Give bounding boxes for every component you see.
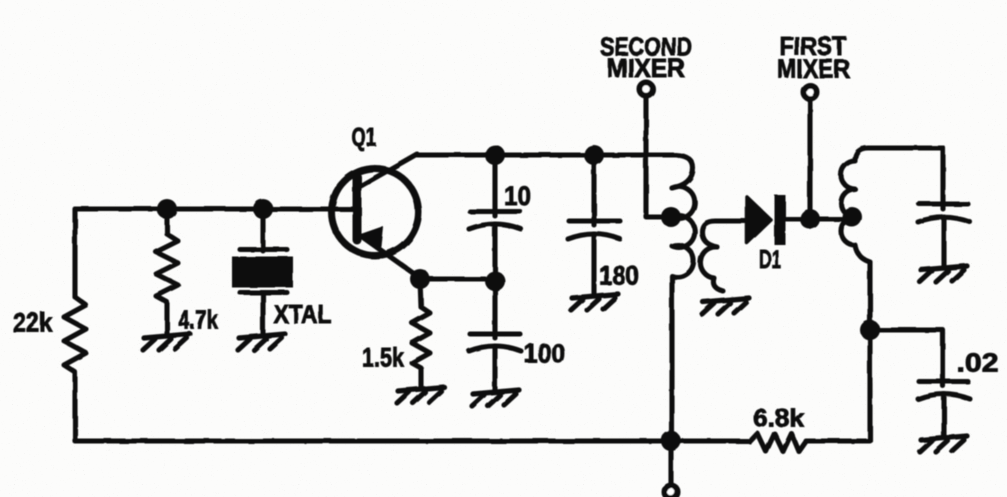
svg-text:22k: 22k [13,308,54,338]
svg-text:10: 10 [504,181,531,211]
svg-text:180: 180 [599,261,639,291]
svg-text:6.8k: 6.8k [753,405,804,433]
svg-text:MIXER: MIXER [777,54,850,84]
svg-text:D1: D1 [759,244,781,274]
svg-text:100: 100 [524,339,565,369]
svg-text:XTAL: XTAL [274,299,332,329]
svg-text:MIXER: MIXER [607,53,685,83]
svg-text:.02: .02 [957,348,999,378]
svg-text:Q1: Q1 [352,122,377,152]
svg-text:4.7k: 4.7k [178,305,218,335]
svg-text:1.5k: 1.5k [362,343,405,373]
